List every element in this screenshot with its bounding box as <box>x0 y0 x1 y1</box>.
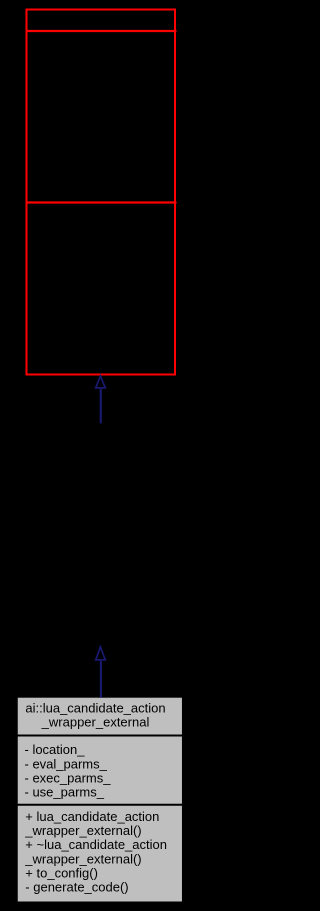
svg-text:- use_parms_: - use_parms_ <box>25 784 105 799</box>
method: to_config() <box>25 866 98 881</box>
svg-text:_wrapper_external: _wrapper_external <box>41 714 150 729</box>
svg-text:+ lua_candidate_action: + lua_candidate_action <box>25 809 159 824</box>
attribute: location_ <box>25 742 86 757</box>
svg-text:- exec_parms_: - exec_parms_ <box>25 770 112 785</box>
method: generate_code() <box>25 880 128 895</box>
method: constructor line 1 <box>25 809 159 824</box>
svg-text:+ ~lua_candidate_action: + ~lua_candidate_action <box>25 837 167 852</box>
class name line 1 <box>25 700 165 715</box>
svg-text:- generate_code(): - generate_code() <box>25 880 128 895</box>
class name line 2 <box>41 714 150 729</box>
inheritance arrow (upper): hollow triangle head <box>96 376 106 388</box>
inheritance arrow (lower): shaft <box>100 661 102 698</box>
red box divider: attributes/methods <box>26 201 177 203</box>
svg-text:_wrapper_external(): _wrapper_external() <box>24 851 141 866</box>
inheritance arrow (upper): shaft <box>100 389 102 424</box>
svg-text:- eval_parms_: - eval_parms_ <box>25 756 108 771</box>
node: base class box (red, truncated, empty label) <box>27 10 176 375</box>
red box divider: name/attributes <box>26 30 177 32</box>
divider: name/attributes <box>16 735 183 737</box>
svg-text:ai::lua_candidate_action: ai::lua_candidate_action <box>25 700 165 715</box>
method: destructor line 1 <box>25 837 167 852</box>
svg-text:+ to_config(): + to_config() <box>25 866 98 881</box>
node: ai::lua_candidate_action_wrapper_external (gray class box) <box>17 697 183 903</box>
attribute: exec_parms_ <box>25 770 112 785</box>
attribute: use_parms_ <box>25 784 105 799</box>
attribute: eval_parms_ <box>25 756 108 771</box>
divider: attributes/methods <box>16 804 183 806</box>
method: destructor line 2 (wrap) <box>24 851 141 866</box>
svg-text:- location_: - location_ <box>25 742 86 757</box>
svg-text:_wrapper_external(): _wrapper_external() <box>24 823 141 838</box>
inheritance arrow (lower): hollow triangle head <box>96 647 106 660</box>
method: constructor line 2 (wrap) <box>24 823 141 838</box>
